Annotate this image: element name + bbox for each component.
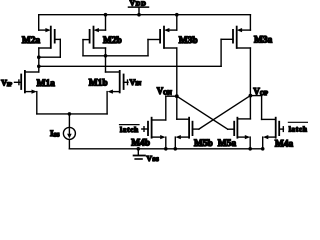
svg-text:M5a: M5a <box>218 139 237 149</box>
transistor M4a (NMOS latch switch, gate on right) <box>263 118 284 149</box>
svg-text:VON: VON <box>157 86 173 96</box>
junction node A at M2a drain <box>37 55 41 59</box>
transistor M1a (NMOS, gate on left, input VIP) <box>15 71 39 114</box>
transistor M1b (NMOS, gate on right, input VIN) <box>106 71 129 114</box>
junction tail node <box>68 112 72 116</box>
svg-text:M2a: M2a <box>22 36 41 46</box>
wire VON cross-couple diagonal to M5a gate <box>177 96 228 129</box>
svg-text:M1a: M1a <box>37 79 56 89</box>
wire node A bus to M3a gate <box>39 39 233 66</box>
junction on VDD rail at VDD stub <box>137 13 141 17</box>
ground symbol VSS <box>134 149 145 159</box>
junction node VON <box>175 94 179 98</box>
transistor M3a (PMOS, gate on left) <box>233 15 250 48</box>
junction on VDD rail at M3b source <box>175 13 179 17</box>
transistor M4b (NMOS latch switch, gate on left) <box>142 118 166 149</box>
wire VOP to M4a drain <box>250 96 275 120</box>
svg-text:ISS: ISS <box>50 128 60 139</box>
svg-text:M2b: M2b <box>103 36 122 46</box>
wire VSS bottom rail <box>69 148 262 150</box>
svg-text:M4b: M4b <box>131 139 150 149</box>
svg-text:M1b: M1b <box>89 79 108 89</box>
wire node B vertical (M2b drain to M1b drain) <box>105 48 107 72</box>
svg-text:M5b: M5b <box>194 139 213 149</box>
transistor M2a (PMOS, mirrored: gate on right) <box>39 15 61 58</box>
wire M3a drain to node VOP <box>249 48 251 119</box>
svg-text:M4a: M4a <box>275 140 294 150</box>
junction VSS rail at M4b source <box>164 147 168 151</box>
wire VON to M4b drain <box>152 96 177 120</box>
junction node VOP <box>249 94 253 98</box>
junction VSS rail at M5a source <box>248 147 252 151</box>
transistor M5a (NMOS cross-coupled, gate on left) <box>228 118 251 149</box>
svg-text:latch: latch <box>120 126 139 134</box>
wire VOP cross-couple diagonal to M5b gate <box>199 96 251 130</box>
svg-text:M3b: M3b <box>179 36 198 46</box>
junction node A bus tap <box>37 65 41 69</box>
svg-text:VSS: VSS <box>146 154 159 163</box>
svg-text:VIP: VIP <box>1 78 13 87</box>
junction VSS rail at M5b source <box>174 147 178 151</box>
junction VSS rail at M4a source <box>261 147 265 151</box>
wire VDD top rail <box>39 14 251 16</box>
transistor M5b (NMOS cross-coupled, gate on right) <box>175 118 199 149</box>
svg-text:latch: latch <box>289 125 308 133</box>
VDD supply symbol <box>129 7 149 15</box>
transistor M2b (PMOS, gate on left) <box>83 15 106 56</box>
svg-text:VIN: VIN <box>130 78 142 87</box>
input latch-bar label (right) <box>288 122 307 133</box>
wire node A vertical (M2a drain to M1a drain) <box>38 48 40 72</box>
transistor M3b (PMOS, gate on left) <box>160 15 177 48</box>
junction node B at M2b drain <box>104 54 108 58</box>
input latch-bar label (left) <box>120 125 140 134</box>
current source ISS <box>63 114 75 149</box>
junction on VDD rail at M2b source <box>104 13 108 17</box>
wire tail node (M1a/M1b sources) <box>37 113 107 115</box>
wire M3b drain to node VON <box>176 48 178 119</box>
junction VSS rail at ground tap <box>137 147 141 151</box>
svg-text:VDD: VDD <box>130 0 147 8</box>
wire M2a diode connection (gate to drain) <box>39 56 61 58</box>
wire M2b diode connection + node B to M3b gate <box>83 40 160 56</box>
svg-text:M3a: M3a <box>254 35 273 45</box>
